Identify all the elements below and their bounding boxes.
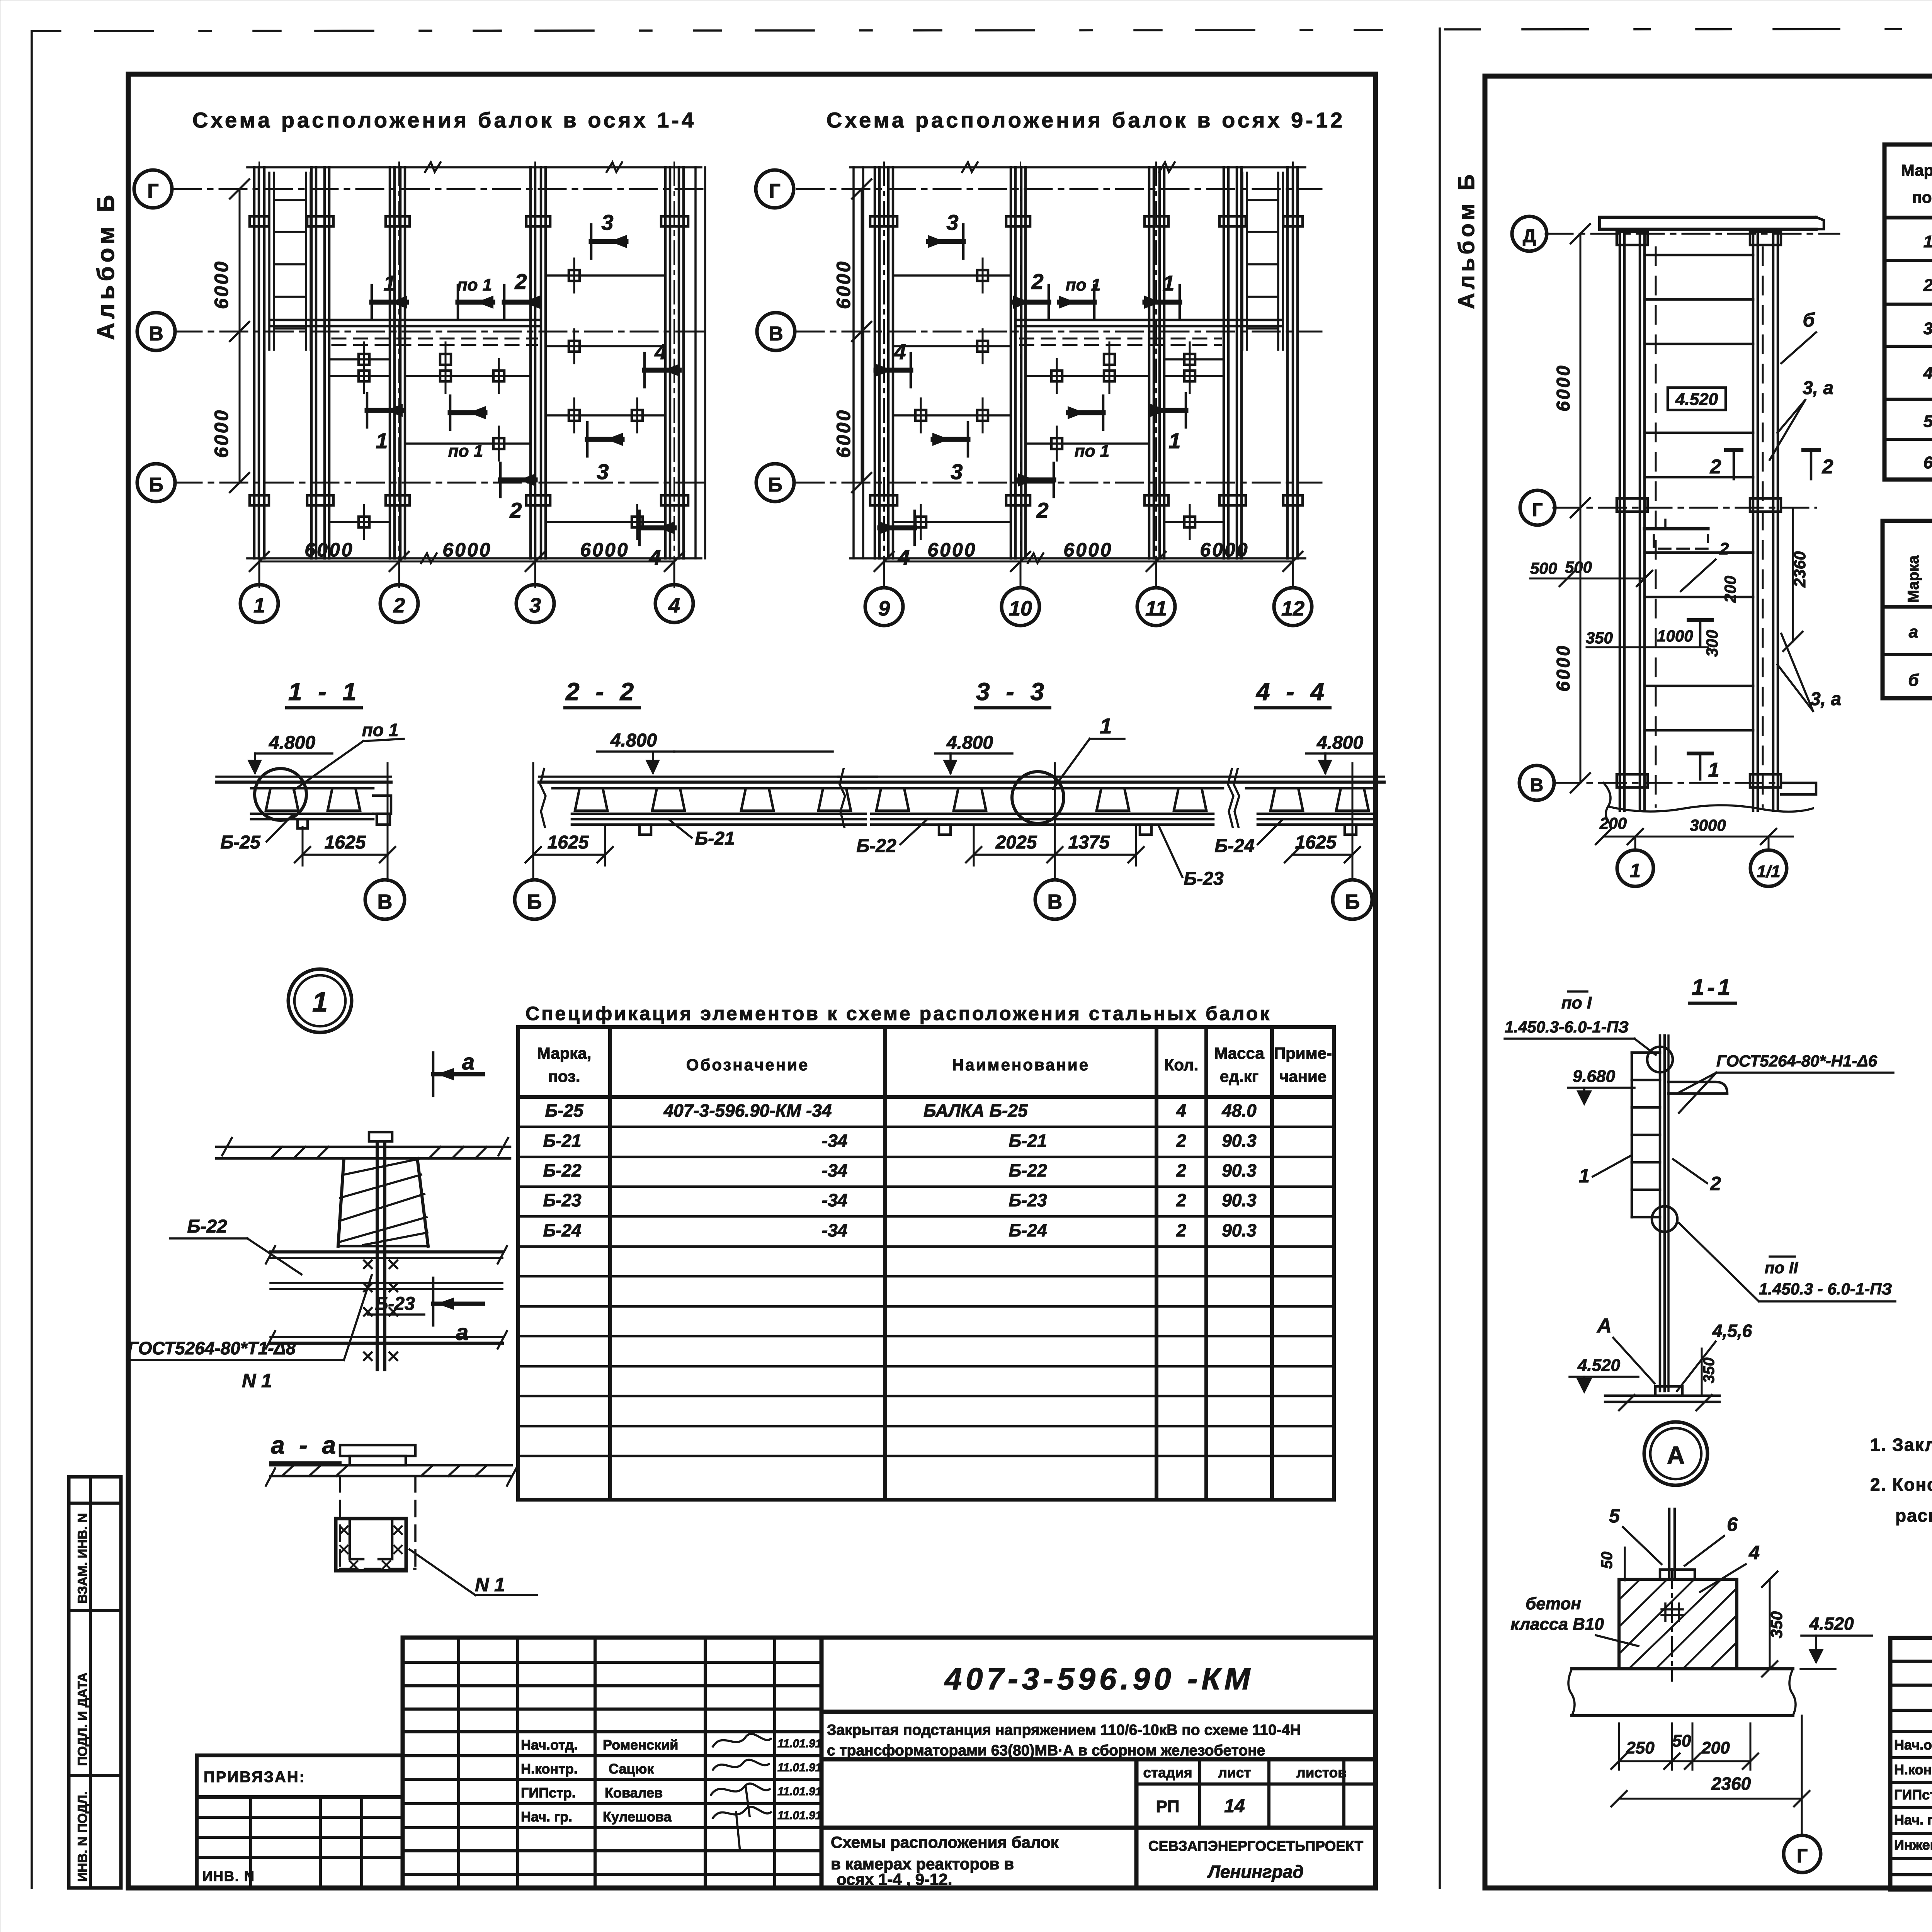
svg-text:Спецификация элементов к сх: Спецификация элементов к схеме расположе… xyxy=(526,1003,1271,1024)
web trapezoid hatched xyxy=(338,1158,428,1246)
signatures squiggles xyxy=(711,1734,771,1851)
izm table xyxy=(249,1797,252,1888)
dashed beam line under В wall xyxy=(332,338,537,340)
svg-text:1625: 1625 xyxy=(548,832,589,853)
svg-text:Нач. гр.: Нач. гр. xyxy=(521,1809,572,1825)
svg-text:11.01.91: 11.01.91 xyxy=(777,1785,822,1798)
svg-text:Роменский: Роменский xyxy=(603,1737,678,1753)
svg-text:6000: 6000 xyxy=(211,409,232,458)
svg-text:СЕВЗАПЭНЕРГОСЕТЬПРОЕКТ: СЕВЗАПЭНЕРГОСЕТЬПРОЕКТ xyxy=(1148,1838,1364,1854)
privyazan cell xyxy=(197,1755,403,1888)
svg-text:2: 2 xyxy=(1710,1173,1721,1194)
svg-text:1.450.3 - 6.0-1-ПЗ: 1.450.3 - 6.0-1-ПЗ xyxy=(1759,1280,1892,1298)
top plate with hatch xyxy=(216,1146,510,1148)
svg-text:2: 2 xyxy=(1719,539,1729,558)
svg-text:a: a xyxy=(462,1049,474,1075)
svg-text:Инженер: Инженер xyxy=(1894,1837,1932,1853)
svg-text:Б-22: Б-22 xyxy=(856,836,896,856)
right sheet top edge dashed scan line xyxy=(1445,29,1932,29)
vertical dim line xyxy=(861,189,863,483)
axis line and circle Б xyxy=(1352,763,1354,879)
svg-text:Г: Г xyxy=(1532,500,1543,520)
stair treads strip xyxy=(1631,1053,1633,1217)
svg-text:250: 250 xyxy=(1626,1738,1655,1757)
svg-text:ПОДЛ. И ДАТА: ПОДЛ. И ДАТА xyxy=(75,1672,90,1766)
axis circle Д xyxy=(1512,216,1547,251)
svg-text:2: 2 xyxy=(509,498,522,522)
vertical dim line between axis circles xyxy=(239,189,241,483)
svg-text:4.800: 4.800 xyxy=(610,730,657,751)
axis Г dash-dot line xyxy=(174,188,708,190)
svg-text:90.3: 90.3 xyxy=(1222,1160,1257,1180)
svg-text:осях 1-4 , 9-12.: осях 1-4 , 9-12. xyxy=(837,1870,952,1888)
svg-text:200: 200 xyxy=(1701,1738,1730,1757)
svg-text:В: В xyxy=(149,323,163,345)
svg-text:2: 2 xyxy=(1036,498,1048,522)
svg-text:Масса: Масса xyxy=(1214,1044,1264,1062)
right rails xyxy=(1752,229,1755,811)
svg-text:Схема расположения балок в: Схема расположения балок в осях 9-12 xyxy=(827,108,1345,132)
plan 2 (axes 9-12) xyxy=(756,162,1321,626)
left edge wall xyxy=(852,167,855,558)
svg-text:1: 1 xyxy=(376,429,388,453)
pole double line xyxy=(1659,1036,1662,1391)
axis Б dash-dot line xyxy=(797,482,1321,484)
svg-text:1: 1 xyxy=(253,594,265,617)
svg-text:бетон: бетон xyxy=(1526,1594,1581,1613)
svg-text:-34: -34 xyxy=(822,1131,847,1151)
svg-text:4: 4 xyxy=(897,545,910,570)
concrete block hatched xyxy=(1619,1579,1737,1669)
svg-text:Ленинград: Ленинград xyxy=(1207,1862,1304,1882)
deck 4-4 xyxy=(1233,776,1384,778)
section flag 1 mid xyxy=(1689,618,1712,622)
350 rotated dim right xyxy=(1769,1579,1771,1669)
svg-text:А: А xyxy=(1667,1441,1685,1469)
svg-text:Б-24: Б-24 xyxy=(1009,1220,1047,1240)
svg-text:11: 11 xyxy=(1145,597,1167,620)
bottom slab at В xyxy=(1604,783,1611,823)
svg-text:1625: 1625 xyxy=(325,832,366,853)
svg-text:Схемы расположения балок: Схемы расположения балок xyxy=(831,1833,1059,1851)
svg-text:Закрытая подстанция напряжение: Закрытая подстанция напряжением 110/6-10… xyxy=(827,1722,1301,1738)
axis В line xyxy=(1553,782,1816,784)
svg-text:чание: чание xyxy=(1279,1067,1327,1085)
plate with hatch xyxy=(270,1464,512,1467)
svg-text:1.450.3-6.0-1-ПЗ: 1.450.3-6.0-1-ПЗ xyxy=(1505,1018,1629,1036)
svg-text:4: 4 xyxy=(1923,364,1932,383)
staff table xyxy=(403,1638,1376,1888)
small bracket right of pole top xyxy=(1668,1082,1727,1094)
axis Г dash-dot line xyxy=(797,188,1321,190)
svg-text:Б-23: Б-23 xyxy=(375,1294,415,1314)
svg-text:Марка,: Марка, xyxy=(537,1044,592,1062)
bottom dimension line plan2 xyxy=(884,561,1293,563)
svg-text:2: 2 xyxy=(1822,456,1833,478)
wall on axis 10 xyxy=(1010,167,1012,558)
axis circles 9-12 xyxy=(883,561,885,588)
wall on axis 12 xyxy=(1286,167,1289,558)
svg-text:ГИПстр.: ГИПстр. xyxy=(1894,1787,1932,1803)
axis circle Б xyxy=(756,464,794,502)
section 4-4 xyxy=(1214,678,1384,919)
2360 vertical dim xyxy=(1792,508,1794,641)
dashed inner verticals xyxy=(1655,247,1657,807)
svg-text:расположению в осях 1-: расположению в осях 1-1/1 xyxy=(1895,1505,1932,1526)
section flags plan2 xyxy=(875,224,1186,545)
spec table R xyxy=(1884,145,1932,480)
beams with seat squares xyxy=(331,358,388,361)
svg-text:4.800: 4.800 xyxy=(269,733,315,753)
svg-text:1: 1 xyxy=(1708,759,1719,781)
left rotated strip (left sheet) xyxy=(69,1477,121,1888)
svg-text:2. Конструкции ограждения: 2. Конструкции ограждения и лестницы в о… xyxy=(1870,1475,1932,1495)
staff names xyxy=(521,1737,678,1825)
svg-text:Б-22: Б-22 xyxy=(187,1216,227,1237)
svg-text:9: 9 xyxy=(878,597,890,620)
wall on axis 4 xyxy=(664,167,667,558)
svg-text:6000: 6000 xyxy=(304,539,354,561)
wall on axis 2 xyxy=(389,167,391,558)
svg-text:Н.контр.: Н.контр. xyxy=(521,1761,578,1777)
svg-text:3: 3 xyxy=(946,210,958,235)
svg-text:2: 2 xyxy=(1031,269,1043,294)
wall on axis 11 xyxy=(1148,167,1151,558)
svg-text:6000: 6000 xyxy=(1553,644,1574,692)
mid bracket detail xyxy=(1645,527,1708,531)
svg-text:4.520: 4.520 xyxy=(1577,1356,1621,1375)
rail pads at axes xyxy=(1617,232,1648,245)
svg-text:Б-21: Б-21 xyxy=(1009,1131,1047,1151)
svg-text:3: 3 xyxy=(1923,319,1932,338)
svg-text:6000: 6000 xyxy=(1063,539,1112,561)
right sheet frame xyxy=(1485,76,1932,1888)
svg-text:6: 6 xyxy=(1923,453,1932,472)
svg-text:2: 2 xyxy=(1176,1190,1186,1210)
svg-text:4: 4 xyxy=(668,594,680,617)
section marks 2 xyxy=(1726,448,1742,452)
svg-text:ГОСТ5264-80*-Н1-Δ6: ГОСТ5264-80*-Н1-Δ6 xyxy=(1716,1052,1878,1070)
axis В dash-dot line xyxy=(797,331,1321,333)
svg-text:Нач.отд.: Нач.отд. xyxy=(521,1737,578,1753)
svg-text:1000: 1000 xyxy=(1657,627,1693,645)
svg-text:6000: 6000 xyxy=(1200,539,1249,561)
wall right mid xyxy=(1223,167,1225,558)
beam lines below xyxy=(270,1250,502,1253)
svg-text:Альбом Б: Альбом Б xyxy=(93,191,119,340)
axis line and circle В xyxy=(1054,763,1056,879)
svg-text:Б-23: Б-23 xyxy=(1009,1190,1047,1210)
svg-text:4: 4 xyxy=(648,545,661,570)
section 2-2 xyxy=(515,678,877,919)
svg-text:4 - 4: 4 - 4 xyxy=(1255,678,1329,706)
column pads xyxy=(1283,216,1303,226)
svg-text:Ковалев: Ковалев xyxy=(605,1785,663,1801)
svg-text:2025: 2025 xyxy=(995,832,1037,853)
svg-text:б: б xyxy=(1803,309,1816,331)
section mark a (top) xyxy=(433,1049,483,1096)
column pads on walls xyxy=(250,216,269,226)
left sheet frame xyxy=(128,74,1376,1888)
svg-text:407-3-596.90 -КМ: 407-3-596.90 -КМ xyxy=(944,1662,1254,1696)
svg-text:300: 300 xyxy=(1703,630,1721,657)
svg-text:б: б xyxy=(1908,671,1919,690)
svg-text:14: 14 xyxy=(1224,1796,1245,1816)
svg-text:350: 350 xyxy=(1701,1357,1718,1383)
svg-text:3: 3 xyxy=(529,594,541,617)
svg-text:ГИПстр.: ГИПстр. xyxy=(521,1785,576,1801)
svg-text:-34: -34 xyxy=(822,1220,847,1240)
svg-text:2: 2 xyxy=(514,269,527,294)
node circle on 3-3 xyxy=(1012,772,1064,823)
axis circles 1 and 1/1 xyxy=(1634,837,1636,850)
svg-text:1/1: 1/1 xyxy=(1757,862,1780,881)
svg-text:4: 4 xyxy=(1748,1542,1760,1563)
svg-text:3: 3 xyxy=(601,210,613,235)
svg-text:2 - 2: 2 - 2 xyxy=(565,678,638,706)
axis line and circle В xyxy=(387,763,389,879)
channel section N1 xyxy=(336,1519,406,1571)
svg-text:лист: лист xyxy=(1218,1765,1251,1781)
svg-text:200: 200 xyxy=(1721,576,1739,603)
svg-text:1: 1 xyxy=(1923,232,1932,251)
spec table (left sheet) xyxy=(518,1027,1334,1500)
bottom dimension line plan1 xyxy=(259,561,674,563)
svg-text:2: 2 xyxy=(1176,1160,1186,1180)
svg-text:поз.: поз. xyxy=(1912,188,1932,206)
title block left sheet xyxy=(197,1638,1376,1888)
left sheet paper edge line xyxy=(31,31,33,1888)
svg-text:2360: 2360 xyxy=(1791,551,1809,588)
axis circle Б xyxy=(137,464,175,502)
svg-text:11.01.91: 11.01.91 xyxy=(777,1761,822,1774)
svg-text:Б-24: Б-24 xyxy=(1214,836,1254,856)
svg-text:407-3-596.90-КМ -34: 407-3-596.90-КМ -34 xyxy=(663,1100,832,1121)
svg-text:Приме-: Приме- xyxy=(1274,1044,1332,1062)
deck 3-3 xyxy=(838,776,1236,778)
svg-text:6000: 6000 xyxy=(442,539,492,561)
svg-text:по 1: по 1 xyxy=(1066,276,1100,294)
axis Г line xyxy=(1553,507,1816,509)
axis line and circle Б xyxy=(532,763,534,879)
svg-text:Г: Г xyxy=(1797,1845,1808,1867)
svg-text:200: 200 xyxy=(1599,814,1627,832)
axis В dash-dot line xyxy=(175,331,708,333)
svg-text:1: 1 xyxy=(312,987,328,1018)
svg-text:6000: 6000 xyxy=(927,539,976,561)
anchor rod above block xyxy=(1668,1509,1671,1579)
wall left mid xyxy=(310,167,313,558)
break mark top xyxy=(425,162,440,172)
svg-text:Марка,: Марка, xyxy=(1901,161,1932,179)
svg-text:3, а: 3, а xyxy=(1810,689,1841,709)
svg-text:5: 5 xyxy=(1923,412,1932,431)
deck 1-1 xyxy=(216,776,391,778)
svg-text:ГОСТ5264-80*Т1-Δ8: ГОСТ5264-80*Т1-Δ8 xyxy=(128,1338,296,1358)
left sheet top edge dashed scan line xyxy=(33,30,1387,31)
svg-text:4.520: 4.520 xyxy=(1675,390,1718,409)
a-a detail drawing xyxy=(266,1445,537,1595)
column axis lines xyxy=(259,162,260,587)
svg-text:N 1: N 1 xyxy=(475,1574,505,1595)
axis Д line xyxy=(1546,233,1839,235)
350 rotated dim xyxy=(1701,1349,1703,1396)
base plate xyxy=(1655,1386,1682,1396)
1-1 view (right sheet) xyxy=(1505,975,1895,1485)
axis Б dash-dot line xyxy=(175,482,708,484)
bubble А xyxy=(1644,1422,1708,1485)
svg-text:6: 6 xyxy=(1727,1514,1738,1535)
svg-text:1 - 1: 1 - 1 xyxy=(288,678,361,706)
svg-text:1: 1 xyxy=(1168,429,1180,453)
wall on axis 1 xyxy=(253,167,256,558)
svg-text:В: В xyxy=(1048,890,1063,913)
svg-text:3: 3 xyxy=(597,459,609,484)
axis circle В xyxy=(1519,765,1554,800)
vertical dim line with 6000s xyxy=(1580,234,1582,783)
svg-text:ПРИВЯЗАН:: ПРИВЯЗАН: xyxy=(204,1769,306,1786)
weld node circles xyxy=(1647,1047,1673,1072)
section 3-3 xyxy=(838,678,1236,919)
dashed bolt shaft xyxy=(339,1476,341,1569)
axis circles 1-4 xyxy=(259,561,260,585)
svg-text:поз.: поз. xyxy=(548,1067,580,1085)
svg-text:по II: по II xyxy=(1765,1259,1799,1277)
bolt xyxy=(369,1132,392,1141)
svg-text:Б-21: Б-21 xyxy=(695,828,735,849)
beams xyxy=(1166,358,1223,361)
svg-text:Б-23: Б-23 xyxy=(543,1190,581,1210)
wall on axis 9 xyxy=(874,167,876,558)
svg-text:2: 2 xyxy=(1710,456,1721,478)
svg-text:1: 1 xyxy=(1162,271,1174,295)
top slab edge xyxy=(850,166,1305,168)
svg-text:3, а: 3, а xyxy=(1803,378,1833,398)
svg-text:Б-22: Б-22 xyxy=(543,1160,581,1180)
svg-text:9.680: 9.680 xyxy=(1573,1067,1616,1086)
svg-text:a - a: a - a xyxy=(271,1431,340,1459)
svg-text:3 - 3: 3 - 3 xyxy=(976,678,1049,706)
right sheet paper edge line left xyxy=(1439,29,1441,1888)
svg-text:12: 12 xyxy=(1281,597,1304,620)
svg-text:1: 1 xyxy=(1579,1165,1590,1187)
svg-text:4: 4 xyxy=(1176,1100,1186,1121)
svg-text:-34: -34 xyxy=(822,1190,847,1210)
wall along axis В xyxy=(270,319,540,321)
svg-text:3000: 3000 xyxy=(1690,816,1726,834)
top slab xyxy=(1600,216,1816,219)
svg-text:11.01.91: 11.01.91 xyxy=(777,1737,822,1750)
svg-text:Б: Б xyxy=(1345,890,1360,913)
section flags plan1 xyxy=(367,224,680,545)
svg-text:Кол.: Кол. xyxy=(1164,1056,1199,1074)
section 1-1 xyxy=(216,678,405,919)
break slashes xyxy=(266,1246,275,1264)
junction detail drawing xyxy=(128,1132,510,1391)
svg-text:по I: по I xyxy=(1561,993,1592,1012)
svg-text:2: 2 xyxy=(1176,1220,1186,1240)
svg-text:50: 50 xyxy=(1599,1552,1616,1569)
svg-text:1: 1 xyxy=(1100,714,1112,738)
weld x-marks xyxy=(364,1260,397,1360)
svg-text:6000: 6000 xyxy=(833,409,854,458)
svg-text:Б-23: Б-23 xyxy=(1184,869,1224,889)
ведомость элементов table xyxy=(1883,521,1932,698)
svg-text:по 1: по 1 xyxy=(362,720,399,740)
svg-text:ИНВ. N ПОДЛ.: ИНВ. N ПОДЛ. xyxy=(75,1791,90,1882)
node circle on 1-1 xyxy=(255,769,306,820)
svg-text:Б: Б xyxy=(149,474,163,496)
svg-text:4.520: 4.520 xyxy=(1809,1614,1854,1634)
svg-text:90.3: 90.3 xyxy=(1222,1220,1257,1240)
svg-text:1: 1 xyxy=(383,271,395,295)
А detail (right sheet bottom) xyxy=(1510,1505,1872,1872)
axis circle В xyxy=(757,313,795,350)
svg-text:5: 5 xyxy=(1609,1505,1620,1527)
svg-text:Обозначение: Обозначение xyxy=(686,1056,810,1074)
svg-text:Кулешова: Кулешова xyxy=(603,1809,672,1825)
svg-text:Сацюк: Сацюк xyxy=(609,1761,654,1777)
svg-text:1: 1 xyxy=(1630,860,1641,881)
svg-text:1625: 1625 xyxy=(1295,832,1337,853)
wall on axis 3 xyxy=(529,167,532,558)
svg-text:350: 350 xyxy=(1767,1611,1786,1638)
svg-text:2: 2 xyxy=(393,594,405,617)
deck 2-2 xyxy=(539,776,877,778)
svg-text:Г: Г xyxy=(769,180,780,202)
svg-text:Б-25: Б-25 xyxy=(220,832,261,853)
svg-text:ед.кг: ед.кг xyxy=(1220,1067,1259,1085)
svg-text:Д: Д xyxy=(1523,226,1536,247)
svg-text:Марка: Марка xyxy=(1905,555,1922,603)
svg-text:6000: 6000 xyxy=(580,539,629,561)
svg-text:стадия: стадия xyxy=(1143,1765,1192,1781)
svg-text:Б: Б xyxy=(768,474,782,496)
svg-text:2: 2 xyxy=(1176,1131,1186,1151)
svg-text:листов: листов xyxy=(1296,1765,1347,1781)
svg-text:500: 500 xyxy=(1530,559,1557,577)
rungs xyxy=(1645,254,1753,257)
column axis lines xyxy=(883,162,885,587)
plan 1 (axes 1-4) xyxy=(134,162,708,622)
svg-text:1. Закладную деталь Д-1: 1. Закладную деталь Д-1 заложить при мон… xyxy=(1870,1435,1932,1455)
svg-text:а: а xyxy=(1909,622,1918,641)
bolt cross in block xyxy=(1662,1604,1683,1621)
svg-text:11.01.91: 11.01.91 xyxy=(777,1809,822,1822)
svg-text:90.3: 90.3 xyxy=(1222,1131,1257,1151)
axis circle Г xyxy=(134,170,172,208)
svg-text:Наименование: Наименование xyxy=(952,1056,1090,1074)
svg-text:N 1: N 1 xyxy=(242,1370,272,1391)
svg-text:10: 10 xyxy=(1009,597,1032,620)
svg-text:БАЛКА Б-25: БАЛКА Б-25 xyxy=(923,1100,1028,1121)
svg-text:4.800: 4.800 xyxy=(946,733,993,753)
svg-text:по 1: по 1 xyxy=(457,276,492,294)
bottom slab edge xyxy=(850,557,1305,560)
svg-text:ВЗАМ. ИНВ. N: ВЗАМ. ИНВ. N xyxy=(75,1513,90,1604)
svg-text:48.0: 48.0 xyxy=(1221,1100,1257,1121)
title block (right sheet) xyxy=(1890,1638,1932,1889)
svg-text:Б-21: Б-21 xyxy=(543,1131,581,1151)
svg-text:с трансформаторами 63(80)МВ·А: с трансформаторами 63(80)МВ·А в сборном … xyxy=(827,1742,1265,1759)
svg-text:-34: -34 xyxy=(822,1160,847,1180)
svg-text:Альбом Б: Альбом Б xyxy=(1454,171,1479,309)
svg-text:3: 3 xyxy=(951,459,963,484)
stair ladder top-left xyxy=(268,173,270,350)
svg-text:4: 4 xyxy=(654,340,667,364)
left rails xyxy=(1619,229,1621,811)
svg-text:2: 2 xyxy=(1923,276,1932,295)
